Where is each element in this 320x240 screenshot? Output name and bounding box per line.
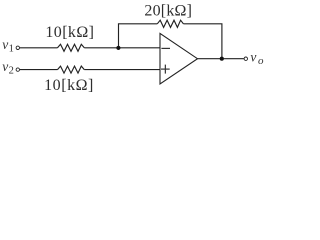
svg-text:10[kΩ]: 10[kΩ] (44, 77, 94, 94)
svg-text:10[kΩ]: 10[kΩ] (45, 24, 94, 41)
svg-text:20[kΩ]: 20[kΩ] (144, 3, 192, 20)
